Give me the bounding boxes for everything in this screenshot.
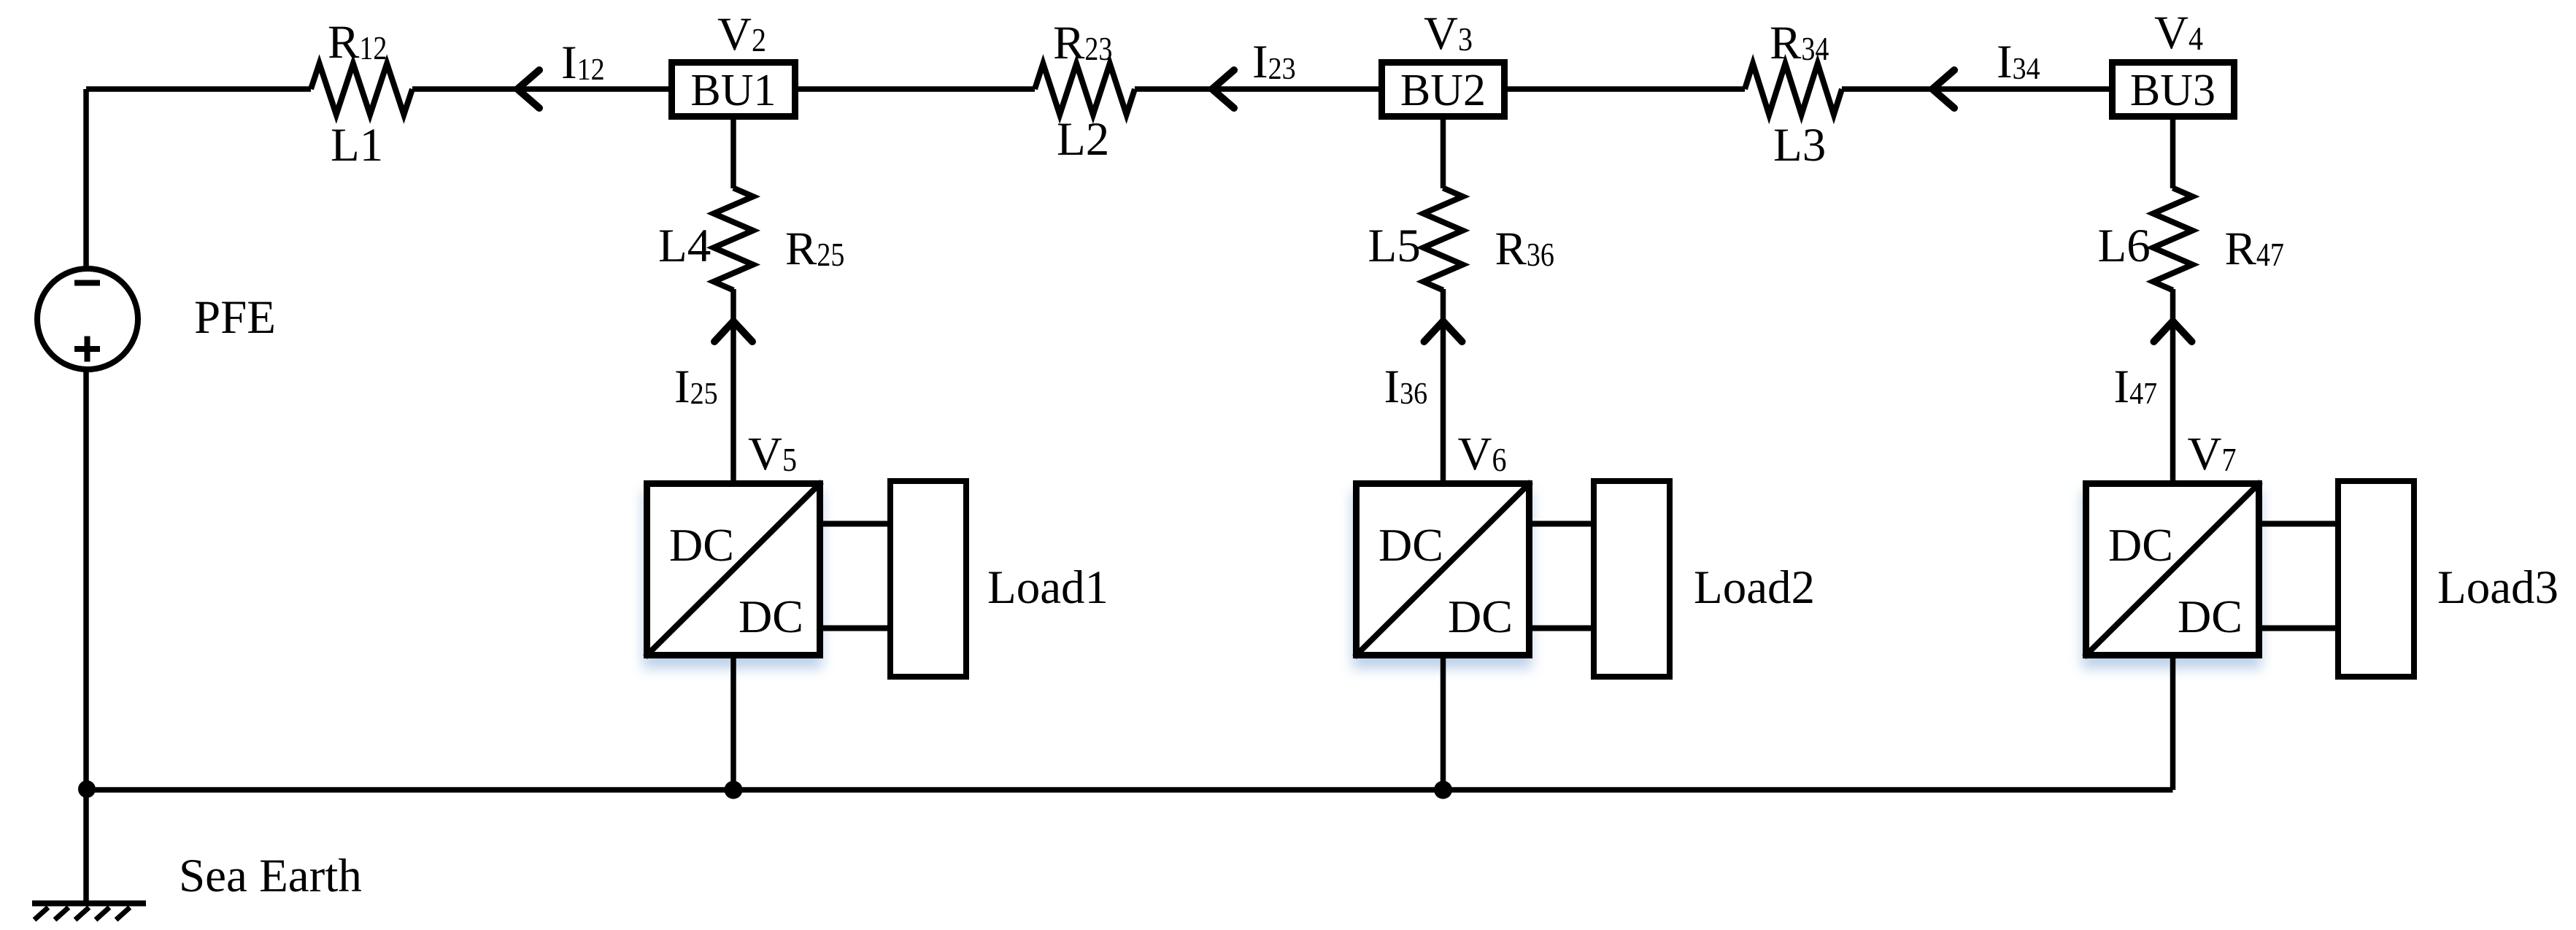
wire DC-DC 3 to Load3 upper (2262, 521, 2335, 527)
svg-text:PFE: PFE (194, 291, 276, 344)
svg-text:BU1: BU1 (690, 66, 776, 115)
dc-dc converter 3 diagonal (2084, 482, 2261, 657)
load Load2 box (1594, 481, 1670, 677)
wire DC-DC 1 to Load1 upper (823, 521, 887, 527)
svg-text:L1: L1 (331, 119, 383, 172)
dc-dc converter 2 box (1357, 484, 1530, 656)
svg-text:Load3: Load3 (2437, 561, 2558, 614)
branching unit BU1 (672, 63, 795, 117)
junction node at PFE/sea earth (78, 780, 96, 798)
resistor R47 (L6) (2153, 188, 2193, 291)
wire top bus: corner to R12 (86, 86, 311, 92)
svg-text:DC: DC (2108, 519, 2173, 571)
wire DC-DC 2 to Load2 lower (1532, 626, 1591, 631)
current arrow I34 (1932, 70, 1954, 108)
svg-text:L6: L6 (2098, 220, 2151, 272)
wire DC-DC 2 to bottom bus (1441, 657, 1446, 790)
wire BU1 to R23 (798, 86, 1035, 92)
wire BU3 down to R47 (2170, 117, 2176, 188)
svg-text:Sea Earth: Sea Earth (179, 850, 362, 902)
PFE plus sign (74, 346, 100, 352)
wire bottom bus (86, 787, 2173, 793)
ground Sea Earth symbol bar (32, 901, 146, 907)
wire BU2 down to R36 (1441, 117, 1446, 188)
svg-text:L4: L4 (658, 220, 711, 272)
dc-dc converter 1 diagonal (645, 482, 822, 657)
resistor R36 (L5) (1424, 188, 1463, 291)
dc-dc converter 1 box (647, 484, 820, 656)
PFE minus sign (74, 280, 100, 286)
svg-text:DC: DC (1448, 591, 1513, 642)
wire BU2 to R34 (1508, 86, 1745, 92)
current arrow I12 (517, 70, 539, 108)
load Load3 box (2338, 481, 2414, 677)
branching unit BU3 (2113, 63, 2234, 117)
resistor R12 (L1) (311, 64, 412, 115)
svg-text:DC: DC (739, 591, 803, 642)
wire DC-DC 1 to Load1 lower (823, 626, 887, 631)
wire R12 to BU1 (412, 86, 668, 92)
wire R23 to BU2 (1135, 86, 1378, 92)
current arrow I25 (714, 321, 752, 342)
current arrow I36 (1424, 321, 1462, 342)
voltage source PFE circle (37, 269, 138, 369)
wire DC-DC 2 to Load2 upper (1532, 521, 1591, 527)
svg-text:L3: L3 (1773, 119, 1826, 172)
wire DC-DC 1 to bottom bus (730, 657, 736, 790)
svg-text:DC: DC (1378, 519, 1443, 571)
junction node branch 1 on bottom bus (725, 781, 743, 799)
wire DC-DC 3 to Load3 lower (2262, 626, 2335, 631)
svg-text:Load1: Load1 (987, 561, 1108, 614)
branching unit BU2 (1382, 63, 1505, 117)
wire DC-DC 3 to bottom bus (2170, 657, 2176, 790)
load Load1 box (890, 481, 966, 677)
wire BU1 down to R25 (730, 117, 736, 188)
wire R34 to BU3 (1842, 86, 2109, 92)
current arrow I23 (1212, 70, 1234, 108)
wire left rail bottom (83, 371, 89, 901)
svg-text:DC: DC (669, 519, 734, 571)
resistor R34 (L3) (1745, 64, 1842, 115)
svg-text:L5: L5 (1368, 220, 1421, 272)
wire left rail top (83, 89, 89, 268)
wire R36 to DC-DC 2 (1441, 289, 1446, 482)
dc-dc converter 2 diagonal (1354, 482, 1531, 657)
svg-text:BU2: BU2 (1400, 66, 1486, 115)
svg-text:BU3: BU3 (2130, 66, 2216, 115)
svg-text:Load2: Load2 (1694, 561, 1815, 614)
resistor R23 (L2) (1035, 64, 1135, 115)
svg-text:DC: DC (2178, 591, 2243, 642)
svg-text:L2: L2 (1057, 113, 1109, 166)
dc-dc converter 3 box (2086, 484, 2259, 656)
ground hatching (34, 907, 130, 920)
wire R47 to DC-DC 3 (2170, 289, 2176, 482)
junction node branch 2 on bottom bus (1434, 781, 1452, 799)
current arrow I47 (2154, 321, 2192, 342)
wire R25 to DC-DC 1 (730, 289, 736, 482)
resistor R25 (L4) (714, 188, 753, 291)
